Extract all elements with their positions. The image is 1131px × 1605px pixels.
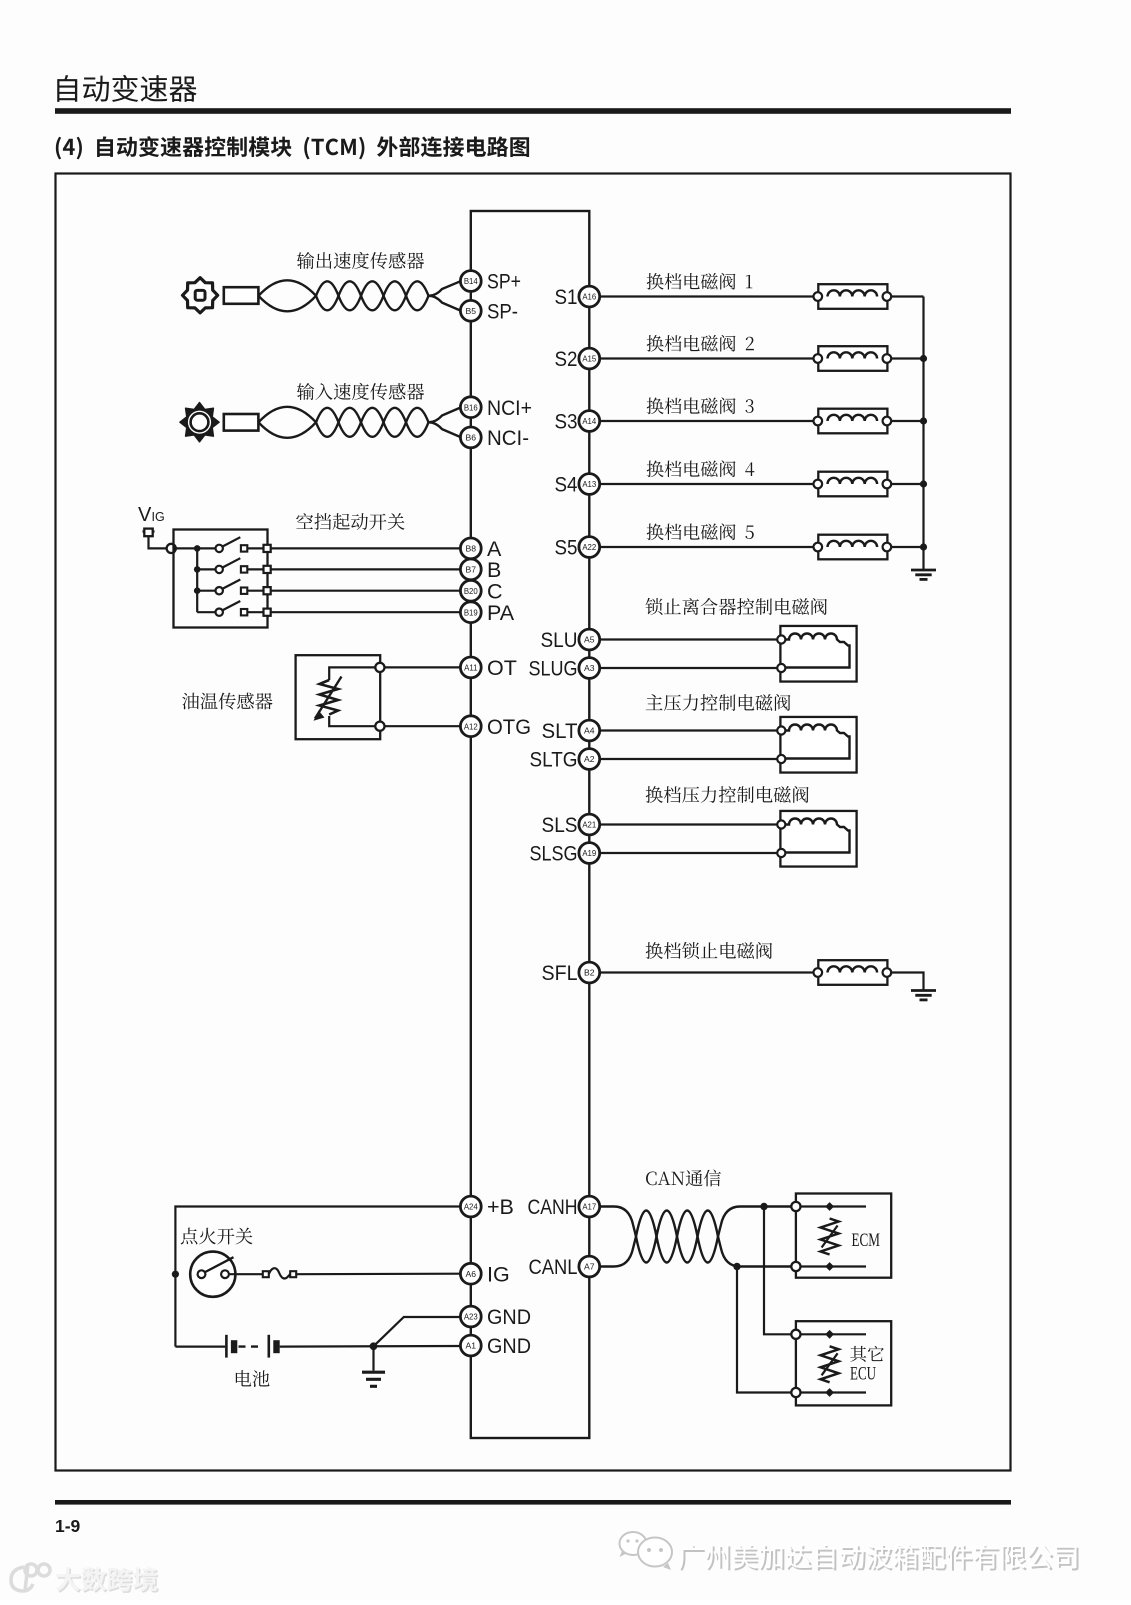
wire battery to junction [280, 1345, 461, 1348]
label other ECU [850, 1346, 884, 1362]
ground solenoid bus [911, 569, 936, 572]
ECM pin bottom [791, 1262, 800, 1271]
other ECU terminating resistor [821, 1346, 839, 1382]
pin A6 [460, 1263, 481, 1284]
oil temp sensor box [296, 655, 381, 739]
label battery [236, 1370, 270, 1387]
switch input node [167, 544, 176, 553]
pin A5 [579, 629, 600, 650]
svg-text:A15: A15 [582, 355, 597, 364]
wire battery left [175, 1345, 225, 1347]
ECM resistor bottom junction [825, 1262, 834, 1271]
oil sensor pin bottom [375, 722, 384, 731]
label lockup clutch solenoid [646, 598, 827, 615]
svg-text:SLUG: SLUG [529, 657, 578, 681]
svg-text:A13: A13 [582, 480, 596, 489]
pin A11 [460, 657, 481, 678]
svg-text:GND: GND [487, 1334, 531, 1358]
svg-text:SLT: SLT [542, 719, 578, 743]
svg-text:A19: A19 [582, 849, 596, 858]
switch contact row 1 [194, 545, 201, 552]
footer rule [55, 1500, 1011, 1505]
solenoid coil L1 [818, 284, 887, 309]
label shift solenoid 5 [647, 523, 754, 540]
wire CANH to other ECU [764, 1207, 791, 1335]
wire switch to fuse [229, 1273, 263, 1275]
wire SLS [600, 823, 778, 825]
svg-text:S4: S4 [555, 473, 578, 497]
wire coil L4 to bus [891, 483, 923, 485]
pin A3 [579, 658, 600, 679]
svg-text:B8: B8 [466, 544, 477, 554]
wire SFL coil to ground [891, 973, 923, 991]
svg-text:A5: A5 [584, 635, 595, 645]
svg-text:B7: B7 [466, 565, 477, 575]
svg-text:1-9: 1-9 [55, 1516, 81, 1536]
TCM module box [471, 211, 590, 1438]
wire SLSG [600, 852, 778, 854]
wire S2 to coil [600, 357, 814, 359]
header rule [55, 108, 1011, 114]
pin A14 [579, 411, 600, 432]
svg-text:A14: A14 [582, 417, 597, 426]
svg-text:GND: GND [487, 1305, 531, 1329]
svg-text:S3: S3 [555, 410, 578, 434]
pin B5 [460, 300, 481, 321]
watermark text [681, 1546, 1079, 1571]
svg-text:S5: S5 [555, 536, 578, 560]
svg-text:CANH: CANH [528, 1195, 578, 1219]
pin A23 [460, 1306, 481, 1327]
label shift pressure solenoid [646, 786, 809, 803]
solenoid coil SLU [780, 626, 856, 682]
wire S1 to coil [600, 295, 814, 297]
ECM box [796, 1194, 891, 1278]
wire +B run [175, 1207, 460, 1347]
svg-text:A23: A23 [464, 1313, 478, 1322]
svg-text:A4: A4 [584, 726, 595, 736]
ground battery [362, 1371, 385, 1374]
output sensor gear icon [183, 278, 218, 313]
svg-text:B19: B19 [464, 608, 478, 617]
svg-text:S2: S2 [555, 347, 578, 371]
wire SFL [600, 971, 814, 973]
wire S3 to coil [600, 420, 814, 422]
label shift solenoid 1 [647, 273, 753, 290]
input sensor gear icon [180, 403, 219, 442]
svg-text:A16: A16 [582, 293, 596, 302]
svg-text:A22: A22 [582, 543, 596, 552]
pin B2 [579, 962, 600, 983]
solenoid coil L5 [818, 535, 887, 560]
svg-text:IG: IG [487, 1262, 510, 1286]
label line pressure solenoid [646, 694, 791, 711]
wire coil L2 to bus [891, 357, 923, 359]
svg-text:A17: A17 [582, 1203, 596, 1212]
VIG terminal symbol [143, 530, 155, 532]
ground junction [370, 1342, 378, 1350]
svg-text:ECU: ECU [850, 1365, 876, 1385]
label shift solenoid 4 [647, 460, 755, 477]
svg-text:SLU: SLU [541, 628, 578, 652]
wire SLT [600, 729, 778, 731]
input sensor connector [224, 414, 259, 431]
twisted pair output sensor [259, 280, 317, 296]
svg-text:SLS: SLS [542, 813, 578, 837]
battery cell plates [225, 1335, 228, 1358]
svg-text:A7: A7 [584, 1262, 595, 1272]
svg-text:SLTG: SLTG [530, 748, 578, 772]
switch contact row 4 [197, 611, 215, 613]
switch bus wire [173, 548, 197, 612]
CAN twisted pair [599, 1207, 636, 1237]
pin B8 [460, 538, 481, 559]
svg-text:A21: A21 [582, 821, 596, 830]
pin A24 [460, 1196, 481, 1217]
solenoid coil L4 [818, 472, 887, 497]
output sensor connector [224, 287, 259, 304]
pin A7 [579, 1256, 600, 1277]
neutral start switch box [174, 530, 268, 628]
pin A16 [579, 286, 600, 307]
svg-text:A1: A1 [466, 1341, 477, 1351]
thermistor element [320, 680, 339, 715]
ignition contact left [198, 1270, 206, 1278]
wire junction to A23 [374, 1317, 461, 1346]
svg-text:A3: A3 [584, 663, 595, 673]
svg-text:A2: A2 [584, 754, 595, 764]
svg-text:B16: B16 [464, 403, 478, 412]
wire S5 to coil [600, 546, 814, 548]
svg-text:PA: PA [487, 601, 515, 625]
bus junction [920, 417, 927, 424]
wire fuse to IG [296, 1273, 460, 1276]
svg-text:NCI+: NCI+ [487, 396, 532, 420]
svg-text:A12: A12 [464, 722, 478, 731]
pin B14 [460, 271, 481, 292]
other ECU box [796, 1321, 891, 1405]
solenoid coil L2 [818, 346, 887, 371]
pin B7 [460, 559, 481, 580]
wire CANL to other ECU [737, 1267, 791, 1393]
ECM terminating resistor [821, 1219, 839, 1255]
solenoid coil L3 [818, 409, 887, 434]
oil sensor pin top [375, 663, 384, 672]
pin A4 [579, 720, 600, 741]
wire S4 to coil [600, 483, 814, 485]
svg-text:SFL: SFL [542, 961, 578, 985]
other ECU pin bottom [791, 1388, 800, 1397]
wire junction to ground [372, 1346, 374, 1370]
wire OTG [385, 725, 461, 727]
svg-text:A11: A11 [464, 664, 477, 673]
label neutral start switch [296, 513, 404, 530]
bus junction [920, 480, 927, 487]
ignition node [172, 1271, 179, 1278]
CANL junction [733, 1263, 740, 1270]
svg-text:B6: B6 [466, 433, 477, 443]
label input speed sensor [297, 383, 424, 400]
pin A1 [460, 1335, 481, 1356]
label shift lock solenoid [646, 942, 772, 959]
section heading [56, 136, 529, 159]
pin A21 [579, 814, 600, 835]
switch contact row 3 [194, 587, 201, 594]
wire coil L1 to bus [891, 295, 923, 297]
pin A15 [579, 348, 600, 369]
switch contact row 2 [194, 566, 201, 573]
other ECU pin top [791, 1330, 800, 1339]
pin A17 [579, 1196, 600, 1217]
wire SLUG [600, 667, 778, 669]
svg-text:ECM: ECM [852, 1231, 881, 1251]
svg-text:S1: S1 [555, 285, 578, 309]
label CAN bus [646, 1170, 721, 1187]
svg-text:SLSG: SLSG [530, 842, 578, 866]
svg-text:A6: A6 [466, 1269, 477, 1279]
page title [57, 75, 196, 102]
solenoid coil SFL [818, 960, 887, 985]
svg-text:OTG: OTG [487, 715, 531, 739]
wire SLTG [600, 758, 778, 760]
other ECU resistor bottom junction [825, 1388, 834, 1397]
solenoid coil SLS [780, 811, 856, 867]
label shift solenoid 3 [647, 397, 754, 414]
svg-text:B5: B5 [466, 306, 477, 316]
wire coil L5 to bus [891, 546, 923, 548]
pin B19 [460, 602, 481, 623]
twisted pair input sensor [259, 407, 317, 423]
svg-text:C: C [487, 579, 503, 603]
label output speed sensor [297, 252, 424, 269]
svg-text:NCI-: NCI- [487, 426, 529, 450]
wire coil L3 to bus [891, 420, 923, 422]
ignition contact right [221, 1270, 229, 1278]
other ECU resistor top junction [825, 1330, 834, 1339]
thermistor wiring [329, 667, 375, 726]
ECM resistor top junction [825, 1202, 834, 1211]
bus junction [920, 543, 927, 550]
svg-text:IG: IG [152, 510, 165, 524]
pin A2 [579, 749, 600, 770]
ECM pin top [791, 1202, 800, 1211]
ignition blade [205, 1257, 234, 1272]
svg-text:OT: OT [487, 656, 517, 680]
solenoid ground bus [922, 297, 924, 571]
pin A13 [579, 474, 600, 495]
svg-text:B14: B14 [464, 277, 479, 286]
corner watermark text [57, 1568, 158, 1593]
ECM internal wires [801, 1205, 867, 1207]
svg-text:B2: B2 [584, 968, 595, 978]
label ignition switch [181, 1228, 253, 1245]
label oil temp sensor [182, 693, 272, 710]
svg-text:SP+: SP+ [487, 270, 521, 294]
ignition switch circle [190, 1252, 235, 1297]
pin A22 [579, 537, 600, 558]
watermark logo [620, 1532, 673, 1570]
svg-text:V: V [138, 504, 152, 526]
svg-text:CANL: CANL [529, 1255, 578, 1279]
wire OT [385, 666, 461, 668]
solenoid coil SLT [780, 717, 856, 773]
svg-text:A24: A24 [464, 1203, 479, 1212]
CANH junction [760, 1203, 767, 1210]
corner watermark logo [11, 1564, 50, 1591]
ground SFL [911, 989, 936, 992]
bus junction [920, 355, 927, 362]
fuse [263, 1271, 269, 1277]
other ECU internal wires [801, 1333, 867, 1335]
svg-text:+B: +B [487, 1195, 514, 1219]
pin B20 [460, 580, 481, 601]
diagram frame [56, 174, 1011, 1471]
pin B16 [460, 397, 481, 418]
pin A19 [579, 843, 600, 864]
label shift solenoid 2 [647, 335, 754, 352]
svg-text:SP-: SP- [487, 299, 518, 323]
wire SLU [600, 638, 778, 640]
pin A12 [460, 716, 481, 737]
pin B6 [460, 427, 481, 448]
wire VIG to switch [149, 536, 167, 548]
svg-text:B20: B20 [464, 587, 479, 596]
